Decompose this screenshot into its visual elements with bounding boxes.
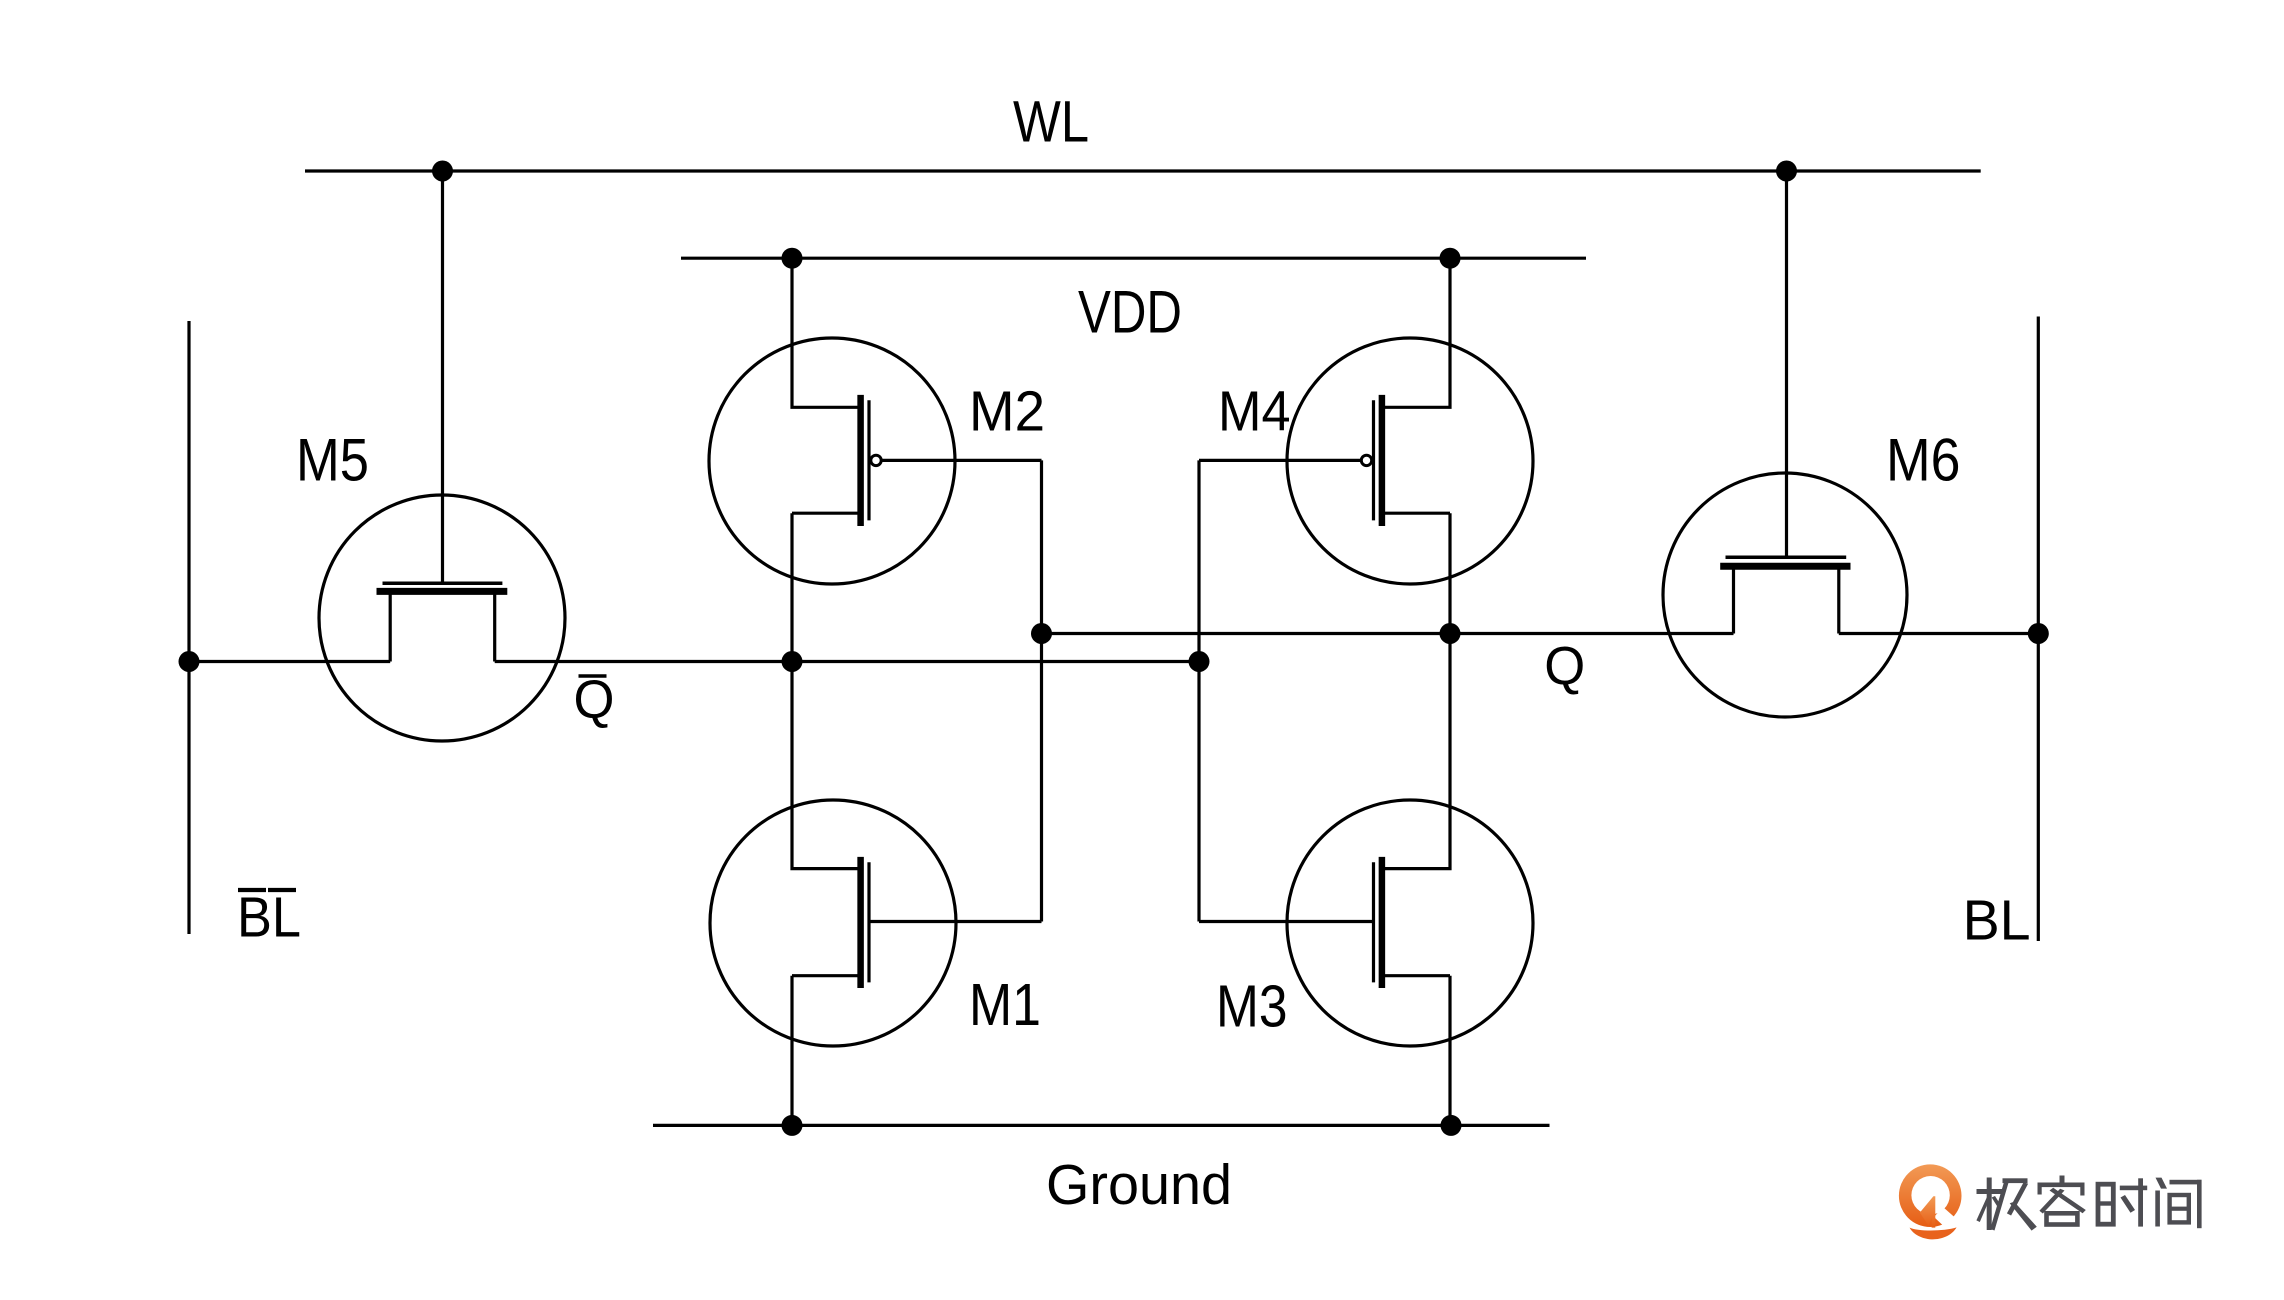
svg-text:M4: M4 [1218,380,1291,444]
svg-text:Q: Q [574,670,615,730]
svg-text:BL: BL [237,886,301,949]
svg-text:WL: WL [1013,90,1089,155]
svg-text:M5: M5 [296,427,369,494]
svg-text:BL: BL [1963,889,2031,952]
svg-text:M1: M1 [969,972,1041,1038]
svg-text:M2: M2 [969,380,1045,444]
svg-text:Q: Q [1544,637,1585,697]
svg-text:VDD: VDD [1078,278,1182,346]
svg-text:Ground: Ground [1046,1153,1232,1217]
svg-text:M3: M3 [1216,973,1288,1040]
svg-text:M6: M6 [1886,427,1961,494]
